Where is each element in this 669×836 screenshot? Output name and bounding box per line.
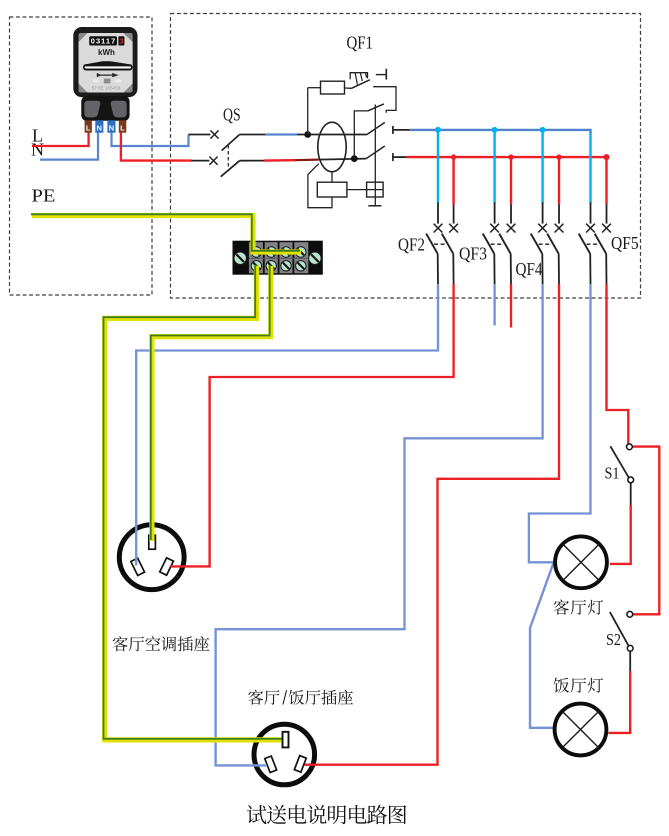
wire L QF5 to switch S1: [607, 284, 629, 444]
trip coil: [331, 172, 333, 182]
wire L QF3 spare stub: [510, 284, 512, 328]
QS pole 1 contact cross: [210, 130, 218, 138]
terminal block screws top row: [251, 247, 261, 257]
title: [247, 805, 406, 824]
socket 1 L pin: [160, 558, 174, 575]
breaker QF5 L-pole blade: [595, 234, 607, 254]
svg-text:QS: QS: [223, 104, 241, 124]
svg-text:QF1: QF1: [347, 32, 374, 52]
meter register display 03117: [89, 36, 117, 45]
kWh meter body: [73, 27, 137, 97]
rotation direction arrow: [97, 74, 114, 76]
node: N bus tap dot QF4: [540, 127, 546, 133]
svg-text:kWh: kWh: [98, 48, 115, 57]
meter disc window: [83, 61, 133, 64]
socket 2 N pin: [265, 756, 277, 773]
wire N: QS to QF1 toroid: [240, 134, 265, 136]
breaker QF4 N-pole drop: [541, 130, 543, 204]
meter terminal cover: [81, 96, 129, 121]
wire N QF2 to socket 1: [136, 284, 438, 566]
socket 2 E pin: [283, 732, 289, 748]
calibration plate: [104, 79, 111, 84]
breaker QF4 pole linkage dashed: [539, 243, 552, 245]
node: L bus tap dot QF4: [556, 154, 561, 159]
trip mechanism box: [367, 182, 384, 197]
breaker QF3 N-pole drop: [493, 130, 495, 204]
svg-text:N: N: [109, 124, 114, 133]
wire N QF3 spare stub: [493, 284, 495, 326]
svg-text:QF5: QF5: [611, 233, 639, 253]
wire L QF2 to socket 1: [171, 284, 454, 566]
breaker QF5 pole linkage dashed: [587, 243, 600, 245]
meter enclosure dashed box: [10, 17, 153, 295]
node: junction dot on L after toroid: [351, 155, 358, 162]
breaker QF3 N-pole contact cross: [490, 224, 499, 233]
breaker QF5 N-pole blade: [579, 234, 591, 254]
wire L QF4 to socket 2: [305, 284, 560, 765]
QF1 main contact L blade: [366, 146, 385, 159]
node: junction dot on N before toroid: [304, 131, 311, 138]
wire N supply to meter terminal 2: [40, 133, 98, 160]
wire L meter output toward QS: [121, 133, 192, 161]
test push button: [350, 73, 367, 80]
socket 2 E pin outline: [283, 732, 289, 748]
breaker QF3 L-pole blade: [499, 234, 511, 254]
breaker QF4 N-pole blade: [531, 234, 543, 254]
svg-text:3: 3: [119, 37, 123, 46]
QS pole 1 blade: [222, 135, 240, 151]
breaker QF5 L-pole contact cross: [602, 224, 611, 233]
socket 1 E pin: [149, 535, 156, 549]
QF1 main contact N blade: [366, 122, 385, 135]
svg-text:QF3: QF3: [459, 244, 487, 264]
QS pole 2 contact cross: [209, 157, 217, 165]
PE wire terminal block to socket 2: [105, 266, 284, 740]
wire N lamp 1 to lamp 2: [530, 564, 554, 728]
svg-text:L: L: [120, 124, 125, 133]
toroid secondary loop: [308, 164, 332, 208]
breaker QF3 pole linkage dashed: [491, 243, 504, 245]
svg-text:QF2: QF2: [398, 235, 425, 255]
node: L bus tap dot QF2: [451, 154, 456, 159]
test button blade: [352, 80, 370, 89]
test resistor: [307, 88, 309, 135]
PE wire supply to terminal block: [32, 216, 301, 253]
breaker QF3 N-pole blade: [483, 234, 495, 254]
breaker QF5 N-pole contact cross: [586, 224, 595, 233]
coil to trip mechanism wire: [347, 189, 383, 191]
node: N bus tap dot QF2: [435, 127, 441, 133]
test button fixed contact: [376, 74, 387, 76]
node: N bus tap dot QF3: [492, 127, 498, 133]
node: L bus corner dot QF5: [604, 154, 610, 160]
breaker QF2 N-pole contact cross: [434, 224, 443, 233]
socket 1 N pin: [131, 558, 145, 575]
lamp: living room light: [555, 536, 607, 588]
QF1 toroid current transformer: [318, 122, 346, 172]
breaker QF2 pole linkage dashed: [434, 243, 447, 245]
breaker QF2 N-pole blade: [426, 234, 438, 254]
breaker QF4 L-pole blade: [547, 234, 559, 254]
PE wire terminal block to socket 1: [152, 266, 271, 541]
svg-text:57 6E 165456: 57 6E 165456: [92, 85, 121, 90]
breaker QF4 L-pole contact cross: [555, 224, 564, 233]
distribution box dashed enclosure: [171, 14, 641, 299]
label: living room AC socket: [113, 636, 210, 651]
breaker QF2 L-pole contact cross: [449, 224, 458, 233]
svg-text:03117: 03117: [91, 37, 116, 46]
label: dining room lamp: [554, 678, 604, 693]
svg-text:QF4: QF4: [516, 259, 543, 279]
svg-text:N: N: [97, 124, 102, 133]
terminal block end screws: [234, 252, 246, 264]
test contact blade to L node: [354, 111, 367, 159]
breaker QF2 L-pole blade: [442, 234, 454, 254]
label: living room lamp: [554, 600, 604, 615]
QS pole 2 blade: [221, 161, 240, 177]
svg-text:S2: S2: [606, 630, 621, 649]
breaker QF3 L-pole drop: [510, 157, 512, 204]
breaker QF2 L-pole drop: [452, 157, 454, 204]
wire N QF4 to socket 2: [216, 284, 543, 765]
red tenths digit 3: [118, 36, 124, 45]
wire N QF5 to living room lamp: [529, 284, 591, 562]
test return wire: [373, 87, 396, 113]
breaker QF2 N-pole drop: [437, 130, 439, 204]
switch S1: [610, 446, 629, 478]
terminal block screws bottom row: [251, 261, 261, 271]
PE terminal block: [233, 241, 323, 275]
socket 2: living/dining outlet: [254, 724, 315, 785]
label: living/dining socket: [248, 690, 353, 705]
breaker QF5 L-pole drop: [605, 157, 607, 204]
breaker QF3 L-pole contact cross: [507, 224, 516, 233]
breaker QF4 N-pole contact cross: [538, 224, 547, 233]
meter face: [79, 33, 133, 93]
svg-text:N: N: [31, 140, 44, 160]
svg-text:PE: PE: [32, 186, 56, 206]
wire N meter output to QS: [112, 133, 189, 147]
L bus (red): [407, 156, 608, 158]
trip linkage: [374, 105, 376, 206]
node: L bus tap dot QF3: [508, 154, 513, 159]
wire L S1 feed branch to S2: [632, 447, 659, 615]
svg-text:L: L: [86, 124, 91, 133]
lamp: dining room light: [555, 704, 607, 756]
N bus (blue): [410, 130, 591, 133]
breaker QF4 L-pole drop: [558, 157, 560, 204]
socket: living room air-conditioner outlet: [119, 525, 184, 590]
socket 2 L pin: [294, 756, 306, 773]
wire L S2 to lamp 2: [629, 651, 631, 671]
wire L S1 to lamp 1: [630, 483, 632, 505]
wire L supply to meter terminal 1: [32, 133, 89, 147]
meter terminals L N N L: [85, 120, 92, 132]
linkage end bar: [368, 205, 381, 207]
svg-text:S1: S1: [605, 464, 620, 483]
breaker QF5 N-pole drop: [589, 132, 591, 203]
switch S2: [610, 612, 629, 645]
QS linkage dashed: [227, 145, 229, 169]
wire L: QS to QF1 toroid: [240, 160, 264, 162]
